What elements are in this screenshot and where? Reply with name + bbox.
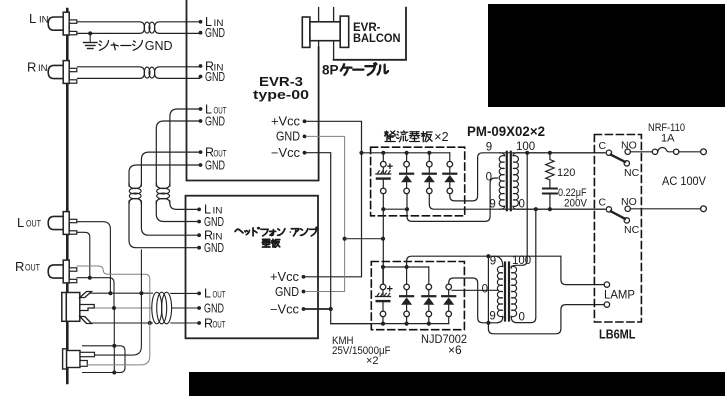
rectifier board 1 dashed box xyxy=(371,147,465,216)
junction dot T2-0 riser xyxy=(534,207,538,211)
board1 bottom bus segment xyxy=(383,208,407,210)
svg-text:GND: GND xyxy=(276,130,300,144)
wire R col to small jack ring xyxy=(87,323,150,365)
T1 0 line to relay C2 xyxy=(518,208,605,210)
svg-text:GND: GND xyxy=(275,285,299,299)
board1 top stub x429.3 xyxy=(428,153,430,162)
black mask bottom xyxy=(189,372,725,396)
svg-text:R: R xyxy=(27,60,36,75)
label chassis GND xyxy=(99,40,142,50)
rectifier board 2 dashed box xyxy=(371,262,464,330)
EVR-3 terminal RIN xyxy=(199,64,203,68)
svg-text:C: C xyxy=(599,140,607,152)
EVR-3 terminal GND xyxy=(199,163,203,167)
svg-text:×2: ×2 xyxy=(366,355,379,367)
T1 100 line to relay C1 xyxy=(518,152,605,154)
cable to HP GND xyxy=(172,307,198,309)
relay LB6ML dashed box xyxy=(594,135,641,323)
resistor 120 xyxy=(546,153,554,180)
board1 comp1 bottom stub xyxy=(382,194,384,284)
svg-text:+: + xyxy=(387,284,393,296)
relay switch 2 NC xyxy=(624,218,629,223)
svg-text:+Vcc: +Vcc xyxy=(271,115,300,129)
capacitor 0.22uF plates xyxy=(549,180,551,188)
output GND line xyxy=(93,307,152,309)
transformer T1 left winding xyxy=(499,153,504,209)
board2 comp2 riser to T2 top 9 xyxy=(407,256,561,267)
svg-text:NO: NO xyxy=(621,140,637,152)
EVR-3 terminal LOUT xyxy=(199,107,203,111)
relay switch 2 NO xyxy=(625,206,630,211)
board1 comp3 bottom to T1 bottom 9 xyxy=(429,194,604,210)
transformer T2 core xyxy=(504,263,506,321)
wire EVR GND to cable B left xyxy=(156,121,198,186)
dot busA comp2 xyxy=(405,207,409,211)
headphone amp board box xyxy=(186,196,319,339)
board2 bottom stub x406.6 xyxy=(406,317,408,324)
junction dot T2-100 riser xyxy=(525,151,529,155)
HP terminal LIN xyxy=(197,208,201,212)
svg-text:PM-09X02×2: PM-09X02×2 xyxy=(467,124,545,139)
svg-text:OUT: OUT xyxy=(25,263,40,274)
wire cable A right to HP R IN xyxy=(141,201,197,235)
board2 bottom bus dot x406.6 xyxy=(405,322,409,326)
connector pin 2 xyxy=(333,8,335,60)
board1 diode D3 xyxy=(447,161,453,167)
wire NO2 to AC terminal 2 xyxy=(630,208,700,210)
svg-text:OUT: OUT xyxy=(26,219,41,230)
board2 top bus xyxy=(383,266,429,268)
wire L IN gnd to chassis ground xyxy=(89,33,91,42)
board2 bottom bus dot x383.0 xyxy=(381,322,385,326)
svg-text:9: 9 xyxy=(490,256,496,268)
HP terminal GND xyxy=(197,246,201,250)
EVR-3 terminal LIN xyxy=(199,20,203,24)
svg-text:25V/15000μF: 25V/15000μF xyxy=(332,345,391,357)
HP terminal RIN xyxy=(197,233,201,237)
cable twist xyxy=(129,184,141,189)
svg-text:8P: 8P xyxy=(322,63,339,78)
svg-text:IN: IN xyxy=(39,15,49,26)
phone jack mid prong xyxy=(80,305,94,311)
GND branch to board column xyxy=(345,238,383,240)
svg-text:LAMP: LAMP xyxy=(604,288,635,302)
T2 100 riser xyxy=(511,153,527,268)
T2 0 riser xyxy=(516,209,536,322)
EVR-3 terminal GND xyxy=(199,119,203,123)
relay switch 2 blade xyxy=(611,211,625,219)
relay switch 2 C xyxy=(606,207,611,212)
dot T2 top 9 xyxy=(486,254,490,258)
label rectifier board x2 xyxy=(384,131,432,142)
svg-text:NC: NC xyxy=(624,224,640,236)
lamp feed wire lower xyxy=(488,305,604,334)
cable to HP L OUT xyxy=(171,292,197,294)
svg-text:LB6ML: LB6ML xyxy=(599,328,636,342)
svg-text:+: + xyxy=(387,161,393,173)
board1 bus dot x429.3 xyxy=(427,151,431,155)
svg-text:NO: NO xyxy=(621,196,637,208)
AC terminal 1 xyxy=(701,149,707,155)
svg-text:GND: GND xyxy=(205,114,225,128)
board2 top stub x383.0 xyxy=(382,267,384,284)
HP terminal GND xyxy=(302,290,306,294)
wire L line branch down xyxy=(140,250,142,293)
junction dot +Vcc on board1 bus xyxy=(359,151,363,155)
svg-text:OUT: OUT xyxy=(213,319,226,329)
wire L col to small jack tip xyxy=(95,293,142,355)
wire L OUT gnd down xyxy=(77,232,90,277)
board1 diode D1 xyxy=(404,161,410,167)
EVR-3 terminal GND xyxy=(303,135,307,139)
HP terminal +Vcc xyxy=(302,275,306,279)
board2 diode D6 xyxy=(446,284,452,290)
transformer T1 right winding xyxy=(513,153,518,209)
board2 bottom bus dot x428.8 xyxy=(427,322,431,326)
svg-text:9: 9 xyxy=(486,142,492,154)
RCA jack R IN xyxy=(48,65,63,78)
+Vcc rail EVR to HP via board1 bus xyxy=(305,121,361,276)
svg-text:0: 0 xyxy=(486,172,492,184)
svg-text:IN: IN xyxy=(213,232,223,242)
svg-text:120: 120 xyxy=(557,167,575,179)
HP terminal ROUT xyxy=(197,321,201,325)
8P cable line / EVR-3 right edge up to connector xyxy=(318,8,320,48)
board1 diode D2 xyxy=(427,161,433,167)
svg-text:GND: GND xyxy=(145,39,173,53)
junction dot GND line xyxy=(112,306,116,310)
wire EVR L OUT to cable B right xyxy=(170,109,199,186)
AC terminal 2 xyxy=(701,206,707,212)
RCA jack L IN xyxy=(48,17,63,30)
board1 comp4 bottom to T1 top 9 xyxy=(450,153,605,201)
junction dot -Vcc HP xyxy=(329,307,333,311)
board2 diode D4 xyxy=(404,284,410,290)
relay switch 1 NC xyxy=(624,161,629,166)
small phone jack xyxy=(63,349,67,369)
svg-text:0: 0 xyxy=(482,284,488,296)
EVR-3 terminal ROUT xyxy=(199,150,203,154)
board1 top bus xyxy=(362,152,450,154)
svg-text:BALCON: BALCON xyxy=(353,33,401,45)
wire fuse to AC terminal 1 xyxy=(679,151,701,153)
label headphone amp xyxy=(235,227,317,236)
RCA jack L OUT xyxy=(48,216,63,229)
transformer T2 left winding xyxy=(497,266,502,316)
junction dot R line xyxy=(148,321,152,325)
junction dot snubber bottom xyxy=(548,207,552,211)
svg-text:9: 9 xyxy=(489,199,495,211)
small jack prong 1 xyxy=(80,352,95,356)
junction dot small jack gnd bottom xyxy=(112,371,116,375)
board1 top stub x383.3 xyxy=(382,153,384,162)
board2 capacitor C2 xyxy=(380,284,386,290)
wire cable B right to HP L IN xyxy=(170,201,197,209)
board2 bottom stub x448.7 xyxy=(448,317,450,324)
output L line xyxy=(88,292,153,294)
board1 top stub x406.6 xyxy=(406,153,408,162)
HP terminal LOUT xyxy=(197,292,201,296)
EVR-BALCON connector right half xyxy=(340,16,349,47)
svg-text:L: L xyxy=(17,215,24,230)
cable to HP R OUT xyxy=(171,322,197,324)
wire cable A left to HP GND2 xyxy=(129,201,197,248)
svg-text:IN: IN xyxy=(38,63,48,74)
svg-text:NC: NC xyxy=(624,167,640,179)
HP terminal −Vcc xyxy=(302,307,306,311)
junction dot GND branch left xyxy=(343,237,347,241)
relay switch 1 blade xyxy=(611,155,625,162)
phone jack sleeve prong xyxy=(80,317,92,324)
phone jack tip prong xyxy=(80,292,92,298)
EVR-BALCON connector left half xyxy=(302,17,310,47)
dot T2 bottom 9 xyxy=(486,321,490,325)
junction dot chassis gnd xyxy=(88,31,92,35)
EVR-3 terminal +Vcc xyxy=(303,119,307,123)
svg-text:OUT: OUT xyxy=(213,290,226,300)
board2 top stub x428.8 xyxy=(428,267,430,284)
junction dot L line xyxy=(108,291,112,295)
board2 bus dot comp1 xyxy=(381,265,385,269)
HP terminal GND xyxy=(197,220,201,224)
shielded twisted cable xyxy=(78,22,145,34)
junction dot snubber top xyxy=(548,151,552,155)
GND rail EVR to HP xyxy=(305,136,344,291)
board1 bus dot x406.6 xyxy=(405,151,409,155)
svg-text:1A: 1A xyxy=(661,133,675,145)
T2 winding leads xyxy=(494,256,516,322)
board2 top stub x406.6 xyxy=(406,267,408,284)
T2 center tap wire xyxy=(452,289,498,291)
wire GND col to small jack xyxy=(113,308,115,373)
board2 bottom stub x383.0 xyxy=(382,317,384,324)
svg-text:C: C xyxy=(599,197,607,209)
board1 comp2 bottom to center tap xyxy=(407,178,498,221)
LAMP terminal top xyxy=(604,282,609,287)
small jack prong 2 xyxy=(80,361,87,367)
wire R OUT signal jog to R line xyxy=(77,266,150,323)
svg-text:×2: ×2 xyxy=(434,130,448,144)
transformer T2 right winding xyxy=(511,266,516,316)
svg-text:+Vcc: +Vcc xyxy=(270,270,299,284)
black mask top-right xyxy=(488,4,725,107)
junction dot small jack gnd top xyxy=(112,344,116,348)
cable twist xyxy=(156,184,170,189)
wire EVR R OUT to cable A right xyxy=(141,152,198,186)
HP terminal GND xyxy=(197,306,201,310)
EVR-3 terminal GND xyxy=(199,75,203,79)
svg-text:−Vcc: −Vcc xyxy=(270,302,299,316)
svg-text:GND: GND xyxy=(204,215,224,229)
LAMP terminal bottom xyxy=(604,302,609,307)
svg-text:L: L xyxy=(29,11,36,26)
RCA jack R OUT xyxy=(48,265,63,278)
wire L OUT signal down to L line xyxy=(77,222,110,294)
junction dot GND branch right xyxy=(381,237,385,241)
chassis ground symbol xyxy=(84,43,98,49)
board2 bottom bus xyxy=(331,323,449,325)
cable triple twist xyxy=(152,292,162,324)
-Vcc rail EVR to HP to board2 bus xyxy=(306,153,371,324)
board2 comp4 top to T2 bottom 9 xyxy=(449,278,498,323)
EVR-3 type-00 board box xyxy=(187,0,319,181)
output R line xyxy=(88,322,153,324)
svg-text:GND: GND xyxy=(204,241,224,255)
board2 diode D5 xyxy=(426,284,432,290)
GND loop upper xyxy=(83,346,125,373)
shielded twisted cable xyxy=(78,67,145,79)
EVR-3 terminal −Vcc xyxy=(303,151,307,155)
relay switch 1 NO xyxy=(625,149,630,154)
svg-text:9: 9 xyxy=(489,311,495,323)
dot busA comp1 xyxy=(381,207,385,211)
svg-text:−Vcc: −Vcc xyxy=(271,146,300,160)
wire EVR GND2 to cable A left xyxy=(129,165,199,186)
svg-text:0: 0 xyxy=(519,312,525,324)
svg-text:GND: GND xyxy=(205,158,225,172)
EVR-BALCON box outline xyxy=(334,8,406,60)
board1 bus dot x383.3 xyxy=(381,151,385,155)
junction dot L line 2 xyxy=(139,291,143,295)
svg-text:R: R xyxy=(15,259,24,274)
wire NO1 to fuse xyxy=(630,151,652,153)
chassis panel line xyxy=(66,9,69,383)
transformer T1 core xyxy=(506,152,508,210)
svg-text:200V: 200V xyxy=(564,198,588,210)
board2 bus dot comp2 xyxy=(405,265,409,269)
board1 capacitor C1 xyxy=(381,161,387,167)
svg-text:OUT: OUT xyxy=(214,148,227,158)
vertical link T2 left xyxy=(487,256,489,323)
svg-text:GND: GND xyxy=(205,70,225,84)
EVR-3 terminal GND xyxy=(199,31,203,35)
svg-text:type-00: type-00 xyxy=(253,87,309,102)
fuse 1A xyxy=(652,149,657,154)
svg-text:100: 100 xyxy=(516,141,535,153)
svg-text:GND: GND xyxy=(204,301,224,315)
junction dot R OUT gnd xyxy=(88,276,92,280)
svg-text:AC 100V: AC 100V xyxy=(662,174,706,188)
lamp feed wire upper xyxy=(561,256,604,284)
svg-text:GND: GND xyxy=(205,26,225,40)
wire R OUT gnd to GND line xyxy=(77,278,114,308)
relay switch 1 C xyxy=(606,150,611,155)
wire cable B left to HP GND xyxy=(156,201,197,222)
board1 top stub x449.8 xyxy=(449,153,451,162)
board2 bottom stub x428.8 xyxy=(428,317,430,324)
phone jack 1/4 inch xyxy=(62,293,67,322)
svg-text:L: L xyxy=(204,287,211,301)
EVR-BALCON connector bar xyxy=(310,22,340,41)
svg-text:×6: ×6 xyxy=(448,343,462,357)
